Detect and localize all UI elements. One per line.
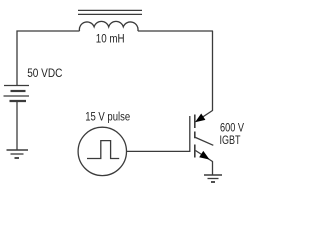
svg-text:50 VDC: 50 VDC: [27, 66, 62, 80]
svg-text:15 V pulse: 15 V pulse: [85, 110, 130, 124]
svg-text:IGBT: IGBT: [220, 133, 241, 147]
svg-text:10 mH: 10 mH: [96, 32, 125, 46]
